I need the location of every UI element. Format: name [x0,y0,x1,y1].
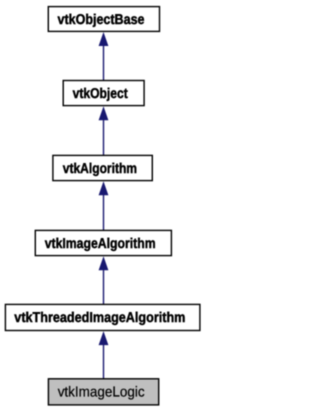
inheritance arrow vtkAlgorithm to vtkObject [99,106,109,155]
inheritance arrow vtkThreadedImageAlgorithm to vtkImageAlgorithm [99,256,109,304]
class box vtkImageLogic (current class, gray) [48,379,158,405]
svg-text:vtkObject: vtkObject [73,86,128,102]
svg-text:vtkObjectBase: vtkObjectBase [58,12,145,28]
class box vtkObjectBase [48,7,159,32]
inheritance arrow vtkObject to vtkObjectBase [99,32,109,81]
inheritance arrow vtkImageLogic to vtkThreadedImageAlgorithm [99,331,109,379]
svg-text:vtkAlgorithm: vtkAlgorithm [63,161,137,177]
svg-text:vtkThreadedImageAlgorithm: vtkThreadedImageAlgorithm [14,310,185,326]
svg-text:vtkImageLogic: vtkImageLogic [58,385,145,401]
class box vtkObject [63,81,144,106]
inheritance arrow vtkImageAlgorithm to vtkAlgorithm [99,181,109,230]
class box vtkImageAlgorithm [35,230,171,255]
svg-text:vtkImageAlgorithm: vtkImageAlgorithm [45,236,156,252]
class box vtkAlgorithm [53,155,152,180]
class box vtkThreadedImageAlgorithm [5,304,200,330]
